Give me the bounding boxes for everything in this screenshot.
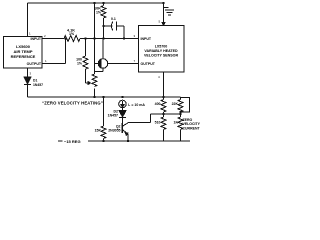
svg-text:5: 5 xyxy=(159,20,161,24)
svg-text:2N3055: 2N3055 xyxy=(108,129,120,133)
svg-text:I₁ = 10 mA: I₁ = 10 mA xyxy=(128,103,145,107)
svg-text:VELOCITY SENSOR: VELOCITY SENSOR xyxy=(144,54,178,58)
svg-text:22K: 22K xyxy=(172,102,179,106)
svg-text:4: 4 xyxy=(158,75,160,79)
svg-text:2: 2 xyxy=(44,34,46,38)
svg-text:−15 REG: −15 REG xyxy=(64,139,81,144)
svg-text:510: 510 xyxy=(155,121,161,125)
svg-text:OUTPUT: OUTPUT xyxy=(141,62,156,66)
svg-text:1N457: 1N457 xyxy=(108,114,118,118)
svg-text:LX5700: LX5700 xyxy=(155,45,168,49)
svg-text:1N457: 1N457 xyxy=(33,83,43,87)
svg-text:3: 3 xyxy=(30,72,32,76)
svg-text:15K: 15K xyxy=(95,129,102,133)
svg-text:1: 1 xyxy=(29,32,31,36)
svg-text:REFERENCE: REFERENCE xyxy=(11,54,36,59)
svg-text:“ZERO VELOCITY HEATING”: “ZERO VELOCITY HEATING” xyxy=(42,101,103,106)
svg-text:1%: 1% xyxy=(69,32,75,36)
svg-text:7: 7 xyxy=(134,59,136,63)
svg-text:3: 3 xyxy=(134,34,136,38)
svg-text:INPUT: INPUT xyxy=(141,37,152,41)
svg-text:0.1: 0.1 xyxy=(111,17,116,21)
svg-text:1%: 1% xyxy=(96,10,102,14)
svg-text:1K: 1K xyxy=(174,121,179,125)
svg-text:400: 400 xyxy=(155,102,161,106)
svg-text:1%: 1% xyxy=(77,62,83,66)
svg-text:VARIABLY HEATED: VARIABLY HEATED xyxy=(144,49,178,53)
svg-text:1: 1 xyxy=(45,59,47,63)
svg-text:CURRENT: CURRENT xyxy=(183,126,201,130)
svg-text:INPUT: INPUT xyxy=(31,37,42,41)
svg-text:OUTPUT: OUTPUT xyxy=(27,62,42,66)
